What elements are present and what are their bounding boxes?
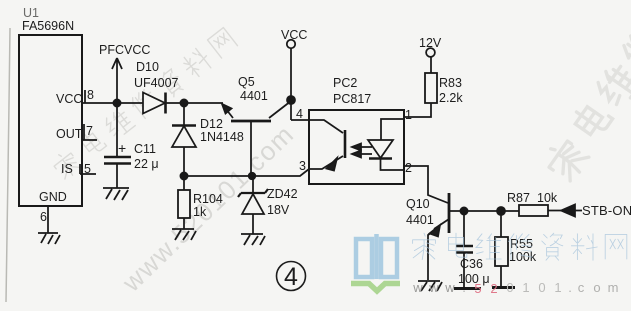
svg-text:PC2: PC2: [333, 76, 357, 90]
svg-text:5: 5: [84, 162, 91, 176]
node: PFCVCC junction: [113, 99, 120, 106]
svg-text:4401: 4401: [406, 213, 434, 227]
IC pin 6 lead: [47, 206, 49, 233]
PC2 internal phototransistor: [309, 120, 343, 133]
svg-text:5: 5: [474, 281, 481, 296]
svg-text:R55: R55: [510, 237, 533, 251]
VCC terminal: [287, 40, 295, 48]
page edge shadow line: [6, 28, 10, 302]
svg-text:GND: GND: [39, 190, 67, 204]
IC pin 7 stub: [82, 124, 97, 140]
svg-text:IS: IS: [61, 162, 73, 176]
svg-text:2.2k: 2.2k: [439, 91, 463, 105]
svg-text:STB-ON: STB-ON: [582, 203, 631, 218]
svg-text:OUT: OUT: [56, 127, 83, 141]
svg-text:1: 1: [522, 280, 529, 295]
svg-text:U1: U1: [23, 6, 39, 20]
node: R55/R87 junction: [497, 207, 505, 215]
resistor R104: [183, 176, 185, 190]
circled numeral 4: [277, 262, 306, 292]
watermark logo: open book (blue): [356, 234, 397, 279]
svg-text:1: 1: [405, 108, 412, 122]
wire: lower rail to PC2 pin3: [184, 169, 309, 176]
diagonal gray watermark: www.520101.com (middle): [116, 119, 300, 298]
resistor R55: [500, 211, 502, 237]
ground (C36): [454, 287, 481, 290]
svg-text:1: 1: [554, 280, 561, 295]
STB-ON arrow: [561, 205, 575, 217]
ground (R55): [492, 286, 515, 289]
node: C36 junction: [460, 207, 467, 214]
diagonal gray watermark: 家电维 (right edge): [542, 24, 631, 183]
op-amp U? : optocoupler PC2 PC817 box: [309, 110, 404, 184]
svg-text:FA5696N: FA5696N: [22, 19, 74, 33]
svg-text:18V: 18V: [267, 203, 290, 217]
svg-text:m: m: [608, 280, 619, 295]
watermark url: www 520101 com (bottom): [412, 280, 618, 296]
zener ZD42: [252, 176, 254, 193]
resistor R83: [425, 73, 437, 103]
resistor R87: [519, 205, 548, 216]
diode D10: [143, 93, 165, 114]
node: Q5 base / ZD42 junction: [249, 173, 256, 180]
wire: VCC down to PC2 pin4: [291, 48, 309, 120]
svg-text:w: w: [412, 280, 423, 295]
svg-text:10k: 10k: [537, 191, 558, 205]
svg-text:22 μ: 22 μ: [134, 157, 159, 171]
svg-text:C11: C11: [134, 142, 156, 156]
svg-text:100k: 100k: [509, 250, 537, 264]
svg-text:2: 2: [490, 281, 497, 296]
svg-text:VCC: VCC: [56, 92, 82, 106]
wire: PC2 pin2 to Q10: [404, 166, 448, 203]
svg-text:0: 0: [538, 280, 545, 295]
svg-text:7: 7: [86, 124, 93, 138]
op-amp/IC U1 FA5696N box: [19, 35, 82, 206]
transistor Q5: [231, 120, 271, 123]
capacitor C36: [463, 211, 465, 245]
wire: Q10 base rail: [449, 210, 519, 212]
ground (Q10): [418, 281, 442, 291]
svg-text:D10: D10: [136, 60, 159, 74]
svg-text:ZD42: ZD42: [267, 187, 298, 201]
svg-text:6: 6: [40, 210, 47, 224]
svg-text:2: 2: [405, 161, 412, 175]
transistor Q10: [448, 193, 451, 233]
svg-text:4401: 4401: [240, 89, 268, 103]
svg-text:3: 3: [299, 159, 306, 173]
wire: pin8 VCC rail: [82, 102, 223, 104]
wire: PC2 pin1 to R83: [404, 103, 431, 117]
svg-text:1N4148: 1N4148: [200, 130, 244, 144]
PFCVCC arrow: [112, 58, 122, 103]
watermark logo: green swoosh: [351, 284, 400, 292]
svg-text:PFCVCC: PFCVCC: [99, 43, 150, 57]
diagonal gray watermark: 家电维修资料网 (upper left): [50, 27, 238, 182]
svg-text:D12: D12: [200, 117, 223, 131]
node: D12 top junction: [180, 99, 187, 106]
svg-text:4: 4: [284, 263, 298, 291]
svg-text:0: 0: [506, 280, 513, 295]
svg-text:12V: 12V: [419, 36, 442, 50]
diode D12: [183, 103, 185, 125]
IC pin 8 tick: [84, 90, 86, 103]
ground (IC pin 6): [38, 233, 60, 244]
svg-text:R83: R83: [439, 76, 462, 90]
svg-text:w: w: [444, 280, 455, 295]
PC2 light arrows: [355, 147, 372, 154]
svg-text:Q10: Q10: [406, 197, 430, 211]
capacitor C11: [116, 103, 118, 156]
12V terminal: [426, 48, 435, 57]
svg-text:.: .: [462, 280, 466, 295]
svg-text:c: c: [578, 280, 585, 295]
watermark text: 家电维修资料网 (blue, bottom right): [413, 233, 627, 260]
svg-text:w: w: [428, 280, 439, 295]
node: lower-rail left junction: [180, 172, 187, 179]
node: VCC / Q5 collector junction: [287, 96, 295, 104]
svg-text:1k: 1k: [193, 205, 207, 219]
svg-text:Q5: Q5: [238, 75, 255, 89]
svg-text:o: o: [593, 280, 600, 295]
svg-text:8: 8: [87, 88, 94, 102]
ground (ZD42): [241, 234, 265, 245]
svg-text:+: +: [118, 140, 126, 156]
svg-text:VCC: VCC: [281, 28, 307, 42]
ground (R104): [172, 229, 196, 240]
ground (C11): [103, 188, 129, 200]
svg-text:R104: R104: [193, 192, 223, 206]
svg-text:R87: R87: [507, 191, 530, 205]
svg-text:.: .: [568, 280, 572, 295]
svg-text:UF4007: UF4007: [134, 76, 179, 90]
svg-text:4: 4: [296, 107, 303, 121]
svg-text:C36: C36: [460, 257, 483, 271]
PC2 internal LED: [381, 119, 404, 140]
svg-text:PC817: PC817: [333, 92, 371, 106]
IC pin 5 stub: [80, 164, 96, 174]
